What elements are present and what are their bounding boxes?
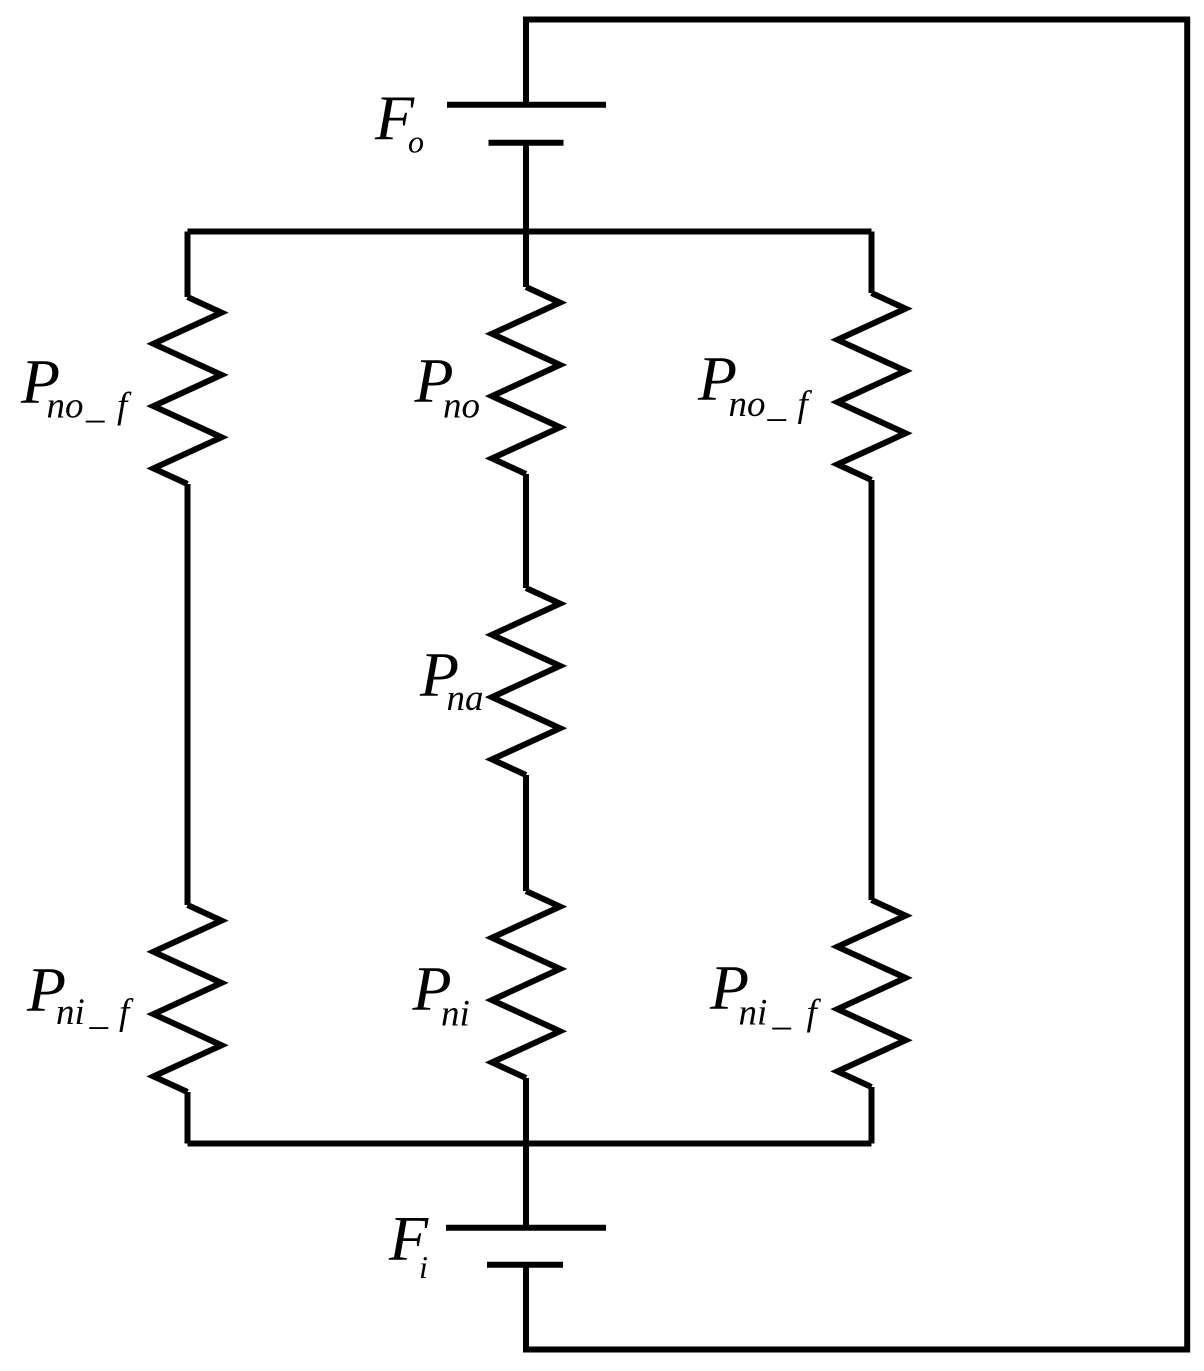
svg-text:no: no bbox=[47, 386, 84, 427]
svg-text:na: na bbox=[447, 678, 484, 719]
svg-text:f: f bbox=[807, 992, 822, 1033]
svg-text:_: _ bbox=[767, 384, 787, 425]
svg-text:_: _ bbox=[772, 992, 792, 1033]
svg-text:ni: ni bbox=[56, 992, 85, 1033]
svg-text:_: _ bbox=[85, 386, 105, 427]
svg-text:no: no bbox=[443, 386, 480, 427]
svg-text:i: i bbox=[419, 1249, 428, 1285]
svg-text:ni: ni bbox=[441, 994, 470, 1035]
svg-text:_: _ bbox=[89, 992, 109, 1033]
svg-text:ni: ni bbox=[739, 992, 768, 1033]
svg-text:f: f bbox=[117, 386, 132, 427]
svg-text:f: f bbox=[798, 384, 813, 425]
svg-text:f: f bbox=[119, 992, 134, 1033]
svg-text:o: o bbox=[408, 124, 424, 160]
svg-text:no: no bbox=[729, 384, 766, 425]
